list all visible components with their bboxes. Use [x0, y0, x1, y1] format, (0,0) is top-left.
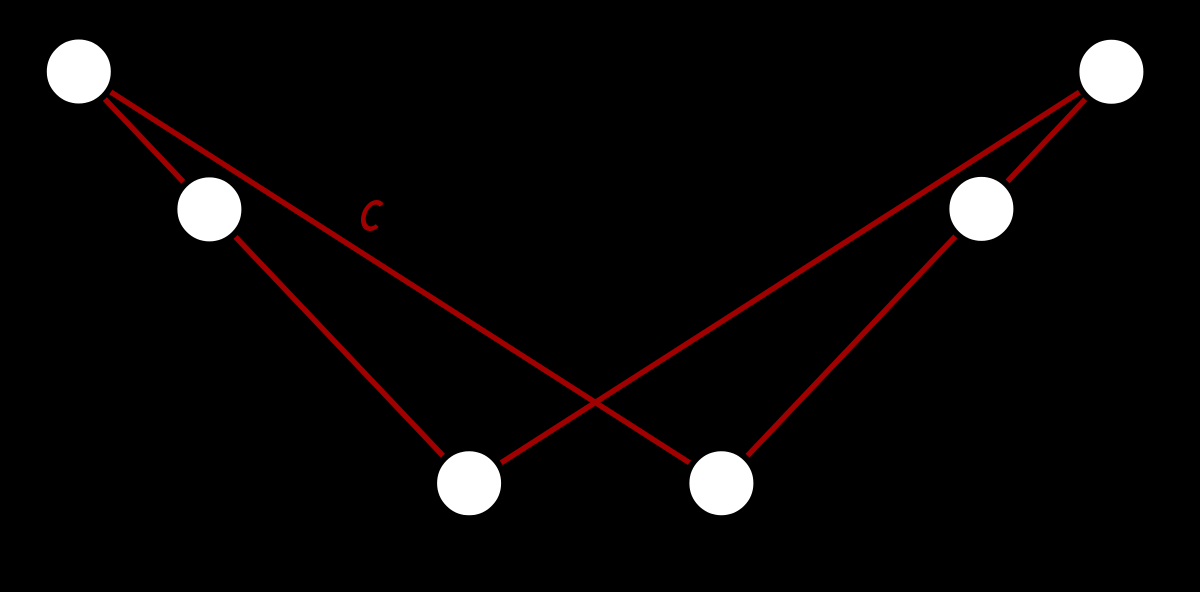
node 3 — [434, 448, 504, 518]
edge 2-3 — [209, 209, 469, 483]
node 4 — [686, 448, 756, 518]
edge 5-4 — [721, 209, 981, 483]
edge 1-2 — [79, 72, 210, 210]
node 1 — [44, 37, 114, 107]
label c — [361, 202, 382, 228]
node 5 — [946, 174, 1016, 244]
edge 6-5 — [981, 72, 1111, 209]
edge 6-3 — [469, 72, 1111, 484]
node 6 — [1076, 37, 1146, 107]
edge 1-4 (labelled c) — [79, 72, 722, 484]
node 2 — [174, 174, 244, 244]
